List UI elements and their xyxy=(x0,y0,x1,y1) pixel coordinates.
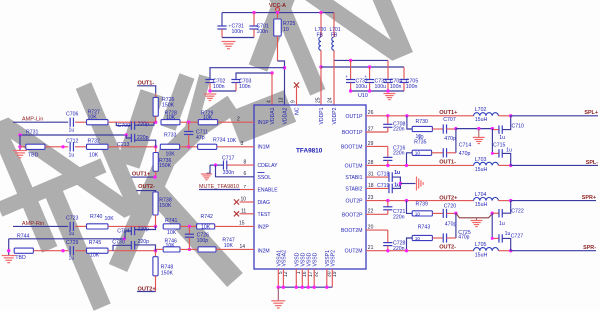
pin 10 DIAG stub xyxy=(240,201,255,203)
svg-text:15uH: 15uH xyxy=(475,252,488,258)
junction xyxy=(154,145,157,148)
junction xyxy=(386,164,389,167)
svg-text:STABI2: STABI2 xyxy=(345,187,362,193)
capacitor C711 xyxy=(188,122,190,131)
svg-text:220p: 220p xyxy=(138,227,150,233)
svg-text:9: 9 xyxy=(291,100,297,103)
svg-text:7: 7 xyxy=(244,184,247,189)
junction xyxy=(477,127,480,130)
svg-text:OUT1-: OUT1- xyxy=(439,160,456,166)
capacitor C730 xyxy=(113,245,131,250)
svg-text:TBD: TBD xyxy=(15,255,26,261)
resistor R729 xyxy=(198,120,217,125)
wire OUT1M row xyxy=(366,164,474,166)
svg-text:27: 27 xyxy=(368,126,374,132)
svg-text:220p: 220p xyxy=(138,121,150,127)
svg-text:C724: C724 xyxy=(117,228,130,234)
junction xyxy=(208,89,211,92)
svg-text:+: + xyxy=(364,74,367,79)
svg-text:1u: 1u xyxy=(69,231,75,237)
svg-text:10K: 10K xyxy=(166,243,176,249)
svg-text:C722: C722 xyxy=(511,209,524,215)
capacitor C732 xyxy=(350,60,352,79)
ferrite bead L700 xyxy=(320,13,322,37)
wire gnd rail2 xyxy=(210,90,236,92)
junction xyxy=(61,249,64,252)
svg-text:25: 25 xyxy=(316,97,322,103)
junction xyxy=(283,66,286,69)
svg-text:L704: L704 xyxy=(475,192,487,198)
svg-text:IN1P: IN1P xyxy=(258,120,270,126)
svg-text:U10: U10 xyxy=(358,93,368,99)
svg-text:VDDP2: VDDP2 xyxy=(332,107,338,124)
svg-text:14: 14 xyxy=(240,244,246,250)
svg-text:100n: 100n xyxy=(406,84,418,90)
junction xyxy=(252,11,255,14)
svg-text:C707: C707 xyxy=(443,117,456,123)
svg-text:100n: 100n xyxy=(390,84,402,90)
svg-text:23: 23 xyxy=(368,195,374,201)
resistor R742 xyxy=(197,224,215,229)
resistor R736 xyxy=(155,147,157,153)
capacitor C712 xyxy=(69,142,71,151)
resistor R746 xyxy=(163,247,180,252)
svg-text:1u: 1u xyxy=(506,148,512,154)
junction xyxy=(188,248,191,251)
capacitor C710 xyxy=(492,129,499,131)
capacitor C705 xyxy=(403,67,405,79)
wire SPL- xyxy=(511,164,598,166)
svg-text:220p: 220p xyxy=(137,135,149,141)
wire pin4 xyxy=(271,73,273,105)
svg-text:11: 11 xyxy=(241,208,246,214)
capacitor C723 xyxy=(69,222,71,231)
capacitor C716 xyxy=(366,145,388,147)
svg-text:C712: C712 xyxy=(66,138,79,144)
svg-text:10K: 10K xyxy=(224,243,234,249)
svg-text:R745: R745 xyxy=(89,240,102,246)
svg-text:100n: 100n xyxy=(213,84,225,90)
svg-text:10K: 10K xyxy=(88,114,98,120)
resistor R732 xyxy=(87,144,109,149)
svg-text:STABI1: STABI1 xyxy=(345,175,362,181)
junction xyxy=(368,65,371,68)
wire gnd rail ch1 xyxy=(456,128,493,130)
wire pin25 xyxy=(320,67,322,105)
svg-text:470p: 470p xyxy=(445,221,457,227)
junction xyxy=(491,127,494,130)
wire VDDP2 bus xyxy=(334,59,388,61)
junction xyxy=(153,175,156,178)
junction xyxy=(188,225,191,228)
svg-text:SPR-: SPR- xyxy=(583,245,596,251)
junction xyxy=(18,133,21,136)
capacitor C213 xyxy=(126,135,131,138)
svg-text:R742: R742 xyxy=(201,214,214,220)
svg-text:10K: 10K xyxy=(167,230,177,236)
svg-text:C720: C720 xyxy=(444,203,457,209)
junction xyxy=(368,89,371,92)
svg-text:10K: 10K xyxy=(90,253,100,259)
junction xyxy=(295,286,298,289)
svg-text:10K: 10K xyxy=(166,115,176,121)
ground xyxy=(478,129,480,138)
wire VDDP1 bus xyxy=(321,66,404,68)
capacitor C702 xyxy=(210,68,285,80)
ground xyxy=(13,150,27,152)
pin 11 TEST stub xyxy=(240,213,255,215)
junction xyxy=(491,212,494,215)
vertical gnd wire xyxy=(19,135,21,151)
svg-text:TFA9810: TFA9810 xyxy=(296,148,323,155)
capacitor C717 xyxy=(227,164,254,166)
svg-text:470p: 470p xyxy=(458,234,469,240)
junction xyxy=(277,286,280,289)
wire SPR- xyxy=(511,250,596,252)
svg-text:R741: R741 xyxy=(165,218,178,224)
svg-text:L703: L703 xyxy=(475,157,487,163)
ground xyxy=(476,218,478,221)
svg-text:R730: R730 xyxy=(416,119,429,125)
resistor R744 TBD body xyxy=(14,248,33,253)
resistor R727 xyxy=(87,120,109,125)
svg-text:150K: 150K xyxy=(162,102,175,108)
junction xyxy=(154,225,157,228)
junction xyxy=(307,286,310,289)
svg-text:OUT2P: OUT2P xyxy=(346,199,364,205)
wire R725 to pin13 xyxy=(278,61,285,105)
junction xyxy=(405,199,408,202)
svg-text:DIAG: DIAG xyxy=(258,200,270,206)
resistor R739 xyxy=(407,201,413,214)
ground xyxy=(383,93,395,95)
wire VSS bus xyxy=(278,286,332,288)
svg-text:220n: 220n xyxy=(393,151,405,157)
svg-text:BOOT2M: BOOT2M xyxy=(341,228,363,234)
capacitor C708 xyxy=(366,131,388,133)
svg-text:C727: C727 xyxy=(511,234,524,240)
junction xyxy=(405,249,408,252)
no-connect X xyxy=(234,199,239,204)
svg-text:R733: R733 xyxy=(164,132,177,138)
svg-text:24: 24 xyxy=(328,97,334,103)
wire stabi gnd xyxy=(400,183,415,185)
svg-text:10: 10 xyxy=(415,211,421,217)
svg-text:10: 10 xyxy=(283,27,289,33)
ground xyxy=(222,41,236,43)
wire rowA R731 xyxy=(20,134,126,136)
ground xyxy=(201,173,212,175)
svg-text:R748: R748 xyxy=(161,264,174,270)
junction xyxy=(319,11,322,14)
junction xyxy=(187,121,190,124)
wire snubber mid xyxy=(455,129,457,153)
junction xyxy=(386,199,389,202)
svg-text:NC: NC xyxy=(295,107,301,115)
svg-text:OUT2+: OUT2+ xyxy=(439,195,458,201)
svg-text:6: 6 xyxy=(244,171,247,177)
svg-text:C730: C730 xyxy=(112,239,125,245)
svg-text:1u: 1u xyxy=(69,152,75,158)
svg-text:TEST: TEST xyxy=(258,212,271,218)
svg-text:R739: R739 xyxy=(416,202,429,208)
svg-text:R735: R735 xyxy=(414,139,427,145)
svg-text:1u: 1u xyxy=(69,127,75,133)
svg-text:VSSD: VSSD xyxy=(312,252,318,266)
resistor R733 xyxy=(160,144,179,149)
junction xyxy=(214,163,217,166)
svg-text:470p: 470p xyxy=(459,151,471,157)
svg-text:100p: 100p xyxy=(197,238,209,244)
svg-text:+: + xyxy=(345,74,348,79)
svg-text:VDDA2: VDDA2 xyxy=(283,107,289,124)
svg-text:BOOT1M: BOOT1M xyxy=(341,144,363,150)
wire gnd rail ch2 xyxy=(456,213,492,218)
junction xyxy=(125,133,128,136)
svg-text:100u: 100u xyxy=(375,84,387,90)
svg-text:2: 2 xyxy=(237,116,240,122)
svg-text:FB: FB xyxy=(331,33,338,39)
svg-text:C719: C719 xyxy=(377,183,390,189)
svg-text:13: 13 xyxy=(279,97,285,103)
capacitor C727 xyxy=(491,213,493,238)
junction xyxy=(325,286,328,289)
svg-text:C717: C717 xyxy=(222,155,235,161)
svg-text:SPL-: SPL- xyxy=(586,160,598,166)
capacitor C719 xyxy=(366,187,389,189)
ground xyxy=(271,300,285,302)
svg-text:21: 21 xyxy=(368,245,374,251)
resistor R738 xyxy=(153,192,158,215)
wire OUT1P row xyxy=(366,115,462,117)
svg-text:47p: 47p xyxy=(196,135,205,141)
wire SPR+ xyxy=(511,200,596,202)
svg-text:15: 15 xyxy=(239,221,245,227)
svg-text:OUT1P: OUT1P xyxy=(346,114,364,120)
svg-text:OUT1M: OUT1M xyxy=(345,163,363,169)
resistor R747 xyxy=(198,247,216,252)
svg-text:VDDP1: VDDP1 xyxy=(319,107,325,124)
svg-text:10K: 10K xyxy=(89,152,99,158)
svg-text:C715: C715 xyxy=(493,143,506,149)
svg-text:100n: 100n xyxy=(232,29,244,35)
junction xyxy=(276,11,279,14)
junction xyxy=(509,164,512,167)
capacitor C729 xyxy=(69,246,71,255)
junction xyxy=(270,71,273,74)
junction xyxy=(61,145,64,148)
resistor R730 xyxy=(407,116,412,129)
svg-text:VCC-A: VCC-A xyxy=(269,3,286,9)
svg-text:150K: 150K xyxy=(159,163,172,169)
capacitor C709 xyxy=(116,122,131,125)
wire gnd stem xyxy=(277,287,279,301)
svg-text:8: 8 xyxy=(244,159,247,165)
watermark TRAIN xyxy=(0,0,445,311)
inductor L705 xyxy=(474,248,499,251)
junction xyxy=(405,164,408,167)
svg-text:OUT2-: OUT2- xyxy=(138,184,155,190)
svg-text:18: 18 xyxy=(368,183,374,189)
svg-text:10: 10 xyxy=(415,236,421,242)
capacitor C721 xyxy=(366,213,388,215)
wire rowF R744 xyxy=(9,238,125,240)
junction xyxy=(491,237,494,240)
resistor R734 xyxy=(198,144,217,149)
svg-text:470p: 470p xyxy=(444,136,456,142)
capacitor C722 xyxy=(492,212,499,214)
svg-text:CDELAY: CDELAY xyxy=(258,163,279,169)
svg-text:4: 4 xyxy=(267,100,273,103)
ground xyxy=(2,255,16,257)
svg-text:15uH: 15uH xyxy=(475,117,488,123)
svg-text:IN2P: IN2P xyxy=(258,224,270,230)
pin 9 NC stub xyxy=(296,87,298,106)
junction xyxy=(301,286,304,289)
junction xyxy=(154,249,157,252)
svg-text:R731: R731 xyxy=(26,130,39,136)
svg-text:SPL+: SPL+ xyxy=(584,110,598,116)
junction xyxy=(349,89,352,92)
svg-text:R732: R732 xyxy=(88,138,101,144)
capacitor C706 xyxy=(69,118,71,127)
svg-text:L702: L702 xyxy=(475,107,487,113)
wire AMP-Rin xyxy=(13,225,68,227)
wire OUT2M row xyxy=(366,250,474,252)
wire C717 gnd xyxy=(207,165,211,173)
svg-text:R734: R734 xyxy=(213,138,226,144)
svg-text:10K: 10K xyxy=(227,138,237,144)
junction xyxy=(154,121,157,124)
wire SPL+ xyxy=(511,115,598,117)
svg-text:3: 3 xyxy=(241,141,244,147)
capacitor C704 xyxy=(387,60,389,79)
junction xyxy=(405,114,408,117)
svg-text:R744: R744 xyxy=(17,234,30,240)
svg-text:10: 10 xyxy=(415,151,421,157)
capacitor C728 xyxy=(366,229,388,231)
inductor L702 xyxy=(462,115,474,117)
svg-text:100n: 100n xyxy=(257,29,269,35)
capacitor C701 xyxy=(253,13,255,26)
resistor R725 xyxy=(277,13,279,19)
junction xyxy=(313,286,316,289)
svg-text:1u: 1u xyxy=(499,135,505,141)
no-connect X xyxy=(294,82,299,87)
resistor R740 xyxy=(87,224,109,229)
svg-text:OUT2-: OUT2- xyxy=(439,245,456,251)
inductor L704 xyxy=(462,200,474,202)
svg-text:C718: C718 xyxy=(377,172,390,178)
junction xyxy=(349,59,352,62)
resistor R745 xyxy=(87,248,109,253)
svg-text:100n: 100n xyxy=(239,84,251,90)
svg-text:C709: C709 xyxy=(118,123,131,129)
svg-text:C710: C710 xyxy=(512,124,525,130)
junction xyxy=(509,114,512,117)
svg-text:IN2M: IN2M xyxy=(258,249,270,255)
inductor L703 xyxy=(474,162,499,165)
svg-text:22: 22 xyxy=(368,209,374,215)
capacitor C726 xyxy=(188,226,190,234)
svg-text:20: 20 xyxy=(368,225,374,231)
junction xyxy=(18,145,21,148)
svg-text:C213: C213 xyxy=(117,142,130,148)
svg-text:OUT2M: OUT2M xyxy=(345,249,363,255)
svg-text:15uH: 15uH xyxy=(475,167,488,173)
ground xyxy=(204,93,217,95)
svg-text:220p: 220p xyxy=(138,239,150,245)
svg-text:100u: 100u xyxy=(356,84,368,90)
svg-text:BOOT1P: BOOT1P xyxy=(342,130,363,136)
svg-text:C723: C723 xyxy=(66,215,79,221)
svg-text:L705: L705 xyxy=(475,242,487,248)
capacitor C725 xyxy=(432,237,443,239)
junction xyxy=(509,199,512,202)
junction xyxy=(509,249,512,252)
junction xyxy=(319,65,322,68)
junction xyxy=(454,212,457,215)
wire snubber mid2 xyxy=(455,213,457,238)
svg-text:220n: 220n xyxy=(393,127,405,133)
wire VSS pins xyxy=(277,269,279,287)
junction xyxy=(399,182,402,185)
svg-text:R743: R743 xyxy=(418,224,431,230)
capacitor C731 xyxy=(221,13,223,26)
svg-text:VSSA2: VSSA2 xyxy=(282,250,288,267)
svg-text:1u: 1u xyxy=(499,221,505,227)
svg-text:C714: C714 xyxy=(459,143,472,149)
junction xyxy=(386,249,389,252)
svg-text:330n: 330n xyxy=(223,170,235,176)
svg-text:TBD: TBD xyxy=(28,152,39,158)
resistor R741 xyxy=(163,224,180,229)
capacitor C707 xyxy=(432,128,443,130)
svg-text:15uH: 15uH xyxy=(475,202,488,208)
svg-text:ENABLE: ENABLE xyxy=(258,188,279,194)
svg-text:10K: 10K xyxy=(166,152,176,158)
junction xyxy=(386,114,389,117)
capacitor C733 xyxy=(369,67,371,79)
wire OUT2P row xyxy=(366,200,462,202)
junction xyxy=(386,89,389,92)
resistor R731 TBD body xyxy=(20,146,26,148)
resistor R735 xyxy=(412,150,431,155)
svg-text:OUT1+: OUT1+ xyxy=(439,110,458,116)
svg-text:R740: R740 xyxy=(90,214,103,220)
svg-text:220n: 220n xyxy=(393,214,405,220)
svg-text:FB: FB xyxy=(317,33,324,39)
svg-text:1u: 1u xyxy=(394,170,400,176)
svg-text:10K: 10K xyxy=(201,224,211,230)
svg-text:26: 26 xyxy=(368,110,374,116)
svg-text:SSOL: SSOL xyxy=(258,175,272,181)
no-connect X xyxy=(234,211,239,216)
ferrite bead L701 xyxy=(333,13,335,37)
junction xyxy=(282,286,285,289)
capacitor C720 xyxy=(432,212,443,214)
capacitor C718 xyxy=(366,176,389,178)
svg-text:1u: 1u xyxy=(505,231,511,237)
svg-text:C706: C706 xyxy=(66,111,79,117)
ground rotated xyxy=(416,177,418,191)
capacitor C714 xyxy=(432,152,444,154)
svg-text:28: 28 xyxy=(368,160,374,166)
resistor R728 xyxy=(161,120,180,125)
wire SSOL gnd xyxy=(216,165,255,177)
svg-text:IN1M: IN1M xyxy=(258,144,270,150)
svg-text:BOOT2P: BOOT2P xyxy=(342,212,363,218)
